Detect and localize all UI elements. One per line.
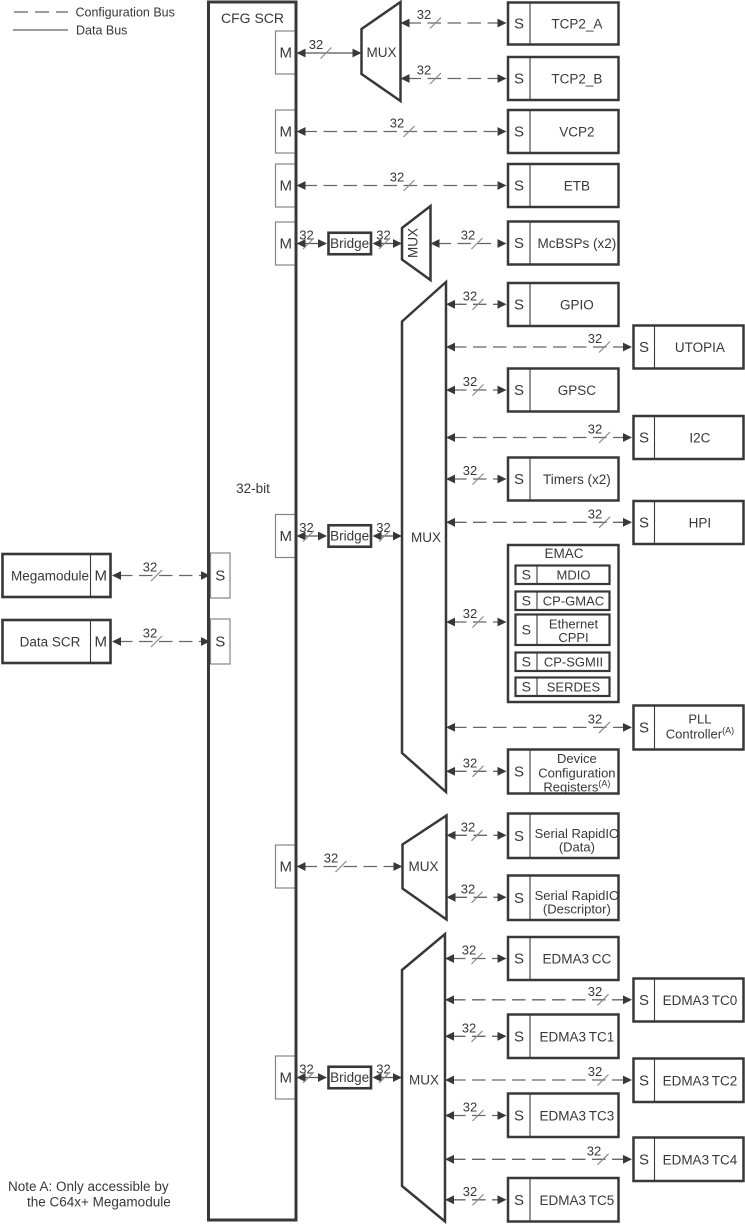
svg-text:32: 32	[462, 943, 476, 958]
GPSC box	[508, 369, 619, 412]
svg-text:S: S	[514, 235, 524, 252]
svg-text:MDIO: MDIO	[557, 567, 591, 582]
svg-text:MUX: MUX	[411, 530, 441, 545]
svg-text:Bridge: Bridge	[330, 1070, 369, 1085]
EDMA3 TC2 box	[634, 1059, 744, 1103]
MUX U1 (TCP2)	[362, 2, 401, 101]
svg-text:S: S	[514, 297, 524, 314]
svg-text:M: M	[279, 1070, 292, 1087]
wire MUX U5 to EDMA3 TC1 (config)	[452, 1035, 500, 1037]
svg-text:Bridge: Bridge	[330, 236, 369, 251]
wire bridge B1 to MUX U2 (data)	[380, 243, 396, 245]
McBSPs box	[508, 222, 619, 265]
wire MUX U4 to Serial RapidIO Descriptor (config)	[454, 896, 500, 898]
EMAC SERDES box	[516, 678, 610, 697]
svg-text:32: 32	[588, 1064, 602, 1079]
wire MUX U5 to EDMA3 TC3 (config)	[452, 1115, 500, 1117]
bridge B3 (EDMA3)	[329, 1067, 372, 1089]
M port to VCP2	[276, 110, 297, 153]
EDMA3 TC5 box	[508, 1178, 619, 1222]
svg-text:S: S	[514, 1107, 524, 1124]
svg-text:32: 32	[417, 7, 431, 22]
EDMA3 TC0 box	[634, 979, 744, 1022]
EDMA3 TC1 box	[508, 1015, 619, 1059]
EDMA3 TC3 box	[508, 1094, 619, 1138]
svg-text:32: 32	[417, 63, 431, 78]
svg-text:32: 32	[463, 1184, 477, 1199]
svg-text:S: S	[639, 1072, 649, 1089]
svg-text:32: 32	[143, 560, 157, 575]
svg-text:MUX: MUX	[409, 859, 439, 874]
svg-text:32: 32	[463, 288, 477, 303]
wire M to bridge B1 (data)	[304, 243, 321, 245]
GPIO box	[508, 283, 619, 326]
svg-text:S: S	[639, 339, 649, 356]
svg-text:32: 32	[309, 37, 323, 52]
svg-text:32: 32	[588, 711, 602, 726]
svg-text:Registers(A): Registers(A)	[543, 779, 610, 795]
svg-text:32: 32	[463, 463, 477, 478]
wire MUX U3 to I2C (config)	[453, 437, 625, 439]
svg-text:EMAC: EMAC	[544, 546, 583, 561]
wire Data SCR to S port (config)	[119, 641, 203, 643]
legend: Configuration Bus dashed line	[14, 11, 68, 13]
wire M to ETB (config)	[304, 185, 500, 187]
svg-text:CPPI: CPPI	[558, 630, 588, 645]
svg-text:32: 32	[390, 116, 404, 131]
svg-text:S: S	[514, 71, 524, 88]
svg-text:S: S	[639, 515, 649, 532]
svg-text:EDMA3 TC0: EDMA3 TC0	[663, 993, 738, 1008]
svg-text:MUX: MUX	[409, 1073, 439, 1088]
svg-text:EDMA3 TC4: EDMA3 TC4	[663, 1152, 738, 1167]
svg-text:S: S	[514, 828, 524, 845]
svg-text:Device: Device	[557, 751, 597, 766]
svg-text:M: M	[279, 45, 292, 62]
wire MUX U5 to EDMA3 TC4 (config)	[452, 1158, 625, 1160]
svg-text:S: S	[639, 992, 649, 1009]
wire bridge B3 to MUX U5 (data)	[380, 1077, 396, 1079]
svg-text:GPSC: GPSC	[558, 383, 597, 398]
wire bridge B2 to MUX U3 (data)	[380, 535, 396, 537]
svg-text:TCP2_A: TCP2_A	[551, 17, 602, 32]
wire MUX U1 to TCP2_B (config)	[408, 78, 500, 80]
M port to EDMA3 bridge	[276, 1056, 297, 1099]
wire M to bridge B3 (data)	[304, 1077, 321, 1079]
svg-text:TCP2_B: TCP2_B	[551, 72, 602, 87]
svg-text:S: S	[514, 1028, 524, 1045]
svg-text:S: S	[522, 621, 531, 637]
svg-text:Controller(A): Controller(A)	[666, 726, 734, 742]
svg-text:EDMA3 TC5: EDMA3 TC5	[540, 1193, 615, 1208]
ETB box	[508, 164, 619, 207]
svg-text:S: S	[514, 1192, 524, 1209]
Data SCR box	[3, 620, 111, 663]
Device Configuration Registers box	[508, 750, 619, 794]
HPI box	[634, 501, 744, 544]
M port to peripheral bridge	[276, 515, 297, 558]
svg-text:MUX: MUX	[406, 228, 421, 258]
svg-text:32: 32	[463, 374, 477, 389]
wire MUX U3 to PLL Controller (config)	[453, 726, 625, 728]
svg-text:CFG SCR: CFG SCR	[221, 10, 284, 26]
TCP2_A box	[508, 3, 619, 45]
svg-text:the C64x+ Megamodule: the C64x+ Megamodule	[27, 1195, 171, 1210]
svg-text:Data SCR: Data SCR	[20, 635, 81, 650]
M port to ETB	[276, 164, 297, 207]
wire MUX U5 to EDMA3 CC (config)	[452, 958, 500, 960]
wire MUX U3 to UTOPIA (config)	[453, 346, 625, 348]
svg-text:32: 32	[463, 755, 477, 770]
M port to Serial RapidIO MUX	[276, 845, 297, 888]
svg-text:(Descriptor): (Descriptor)	[543, 902, 611, 917]
svg-text:UTOPIA: UTOPIA	[675, 340, 725, 355]
svg-text:32: 32	[461, 881, 475, 896]
svg-text:S: S	[522, 678, 531, 694]
wire M to VCP2 (config)	[304, 131, 500, 133]
svg-text:S: S	[522, 592, 531, 608]
svg-text:S: S	[639, 1151, 649, 1168]
EMAC MDIO box	[516, 566, 610, 585]
svg-text:SERDES: SERDES	[547, 679, 601, 694]
svg-text:ETB: ETB	[564, 179, 590, 194]
svg-text:32: 32	[324, 851, 338, 866]
MUX U4 (Serial RapidIO)	[403, 816, 447, 920]
EDMA3 CC box	[508, 937, 619, 980]
wire Megamodule to S port (config)	[119, 575, 203, 577]
svg-text:Data Bus: Data Bus	[76, 24, 127, 38]
M port to McBSP bridge	[276, 222, 297, 265]
legend: Data Bus solid line	[13, 29, 68, 31]
VCP2 box	[508, 110, 619, 153]
svg-text:M: M	[94, 568, 107, 585]
svg-text:32: 32	[588, 331, 602, 346]
svg-text:S: S	[514, 16, 524, 33]
wire MUX U3 to HPI (config)	[453, 521, 625, 523]
wire MUX U1 to TCP2_A (config)	[408, 22, 500, 24]
svg-text:M: M	[279, 178, 292, 195]
PLL Controller box	[634, 706, 744, 750]
svg-text:32: 32	[462, 1020, 476, 1035]
svg-text:I2C: I2C	[689, 431, 710, 446]
svg-text:32: 32	[143, 626, 157, 641]
svg-text:HPI: HPI	[689, 516, 712, 531]
svg-text:32: 32	[588, 984, 602, 999]
svg-text:EDMA3 TC1: EDMA3 TC1	[540, 1029, 615, 1044]
Serial RapidIO Descriptor box	[508, 876, 619, 921]
bridge B1 (McBSP)	[329, 233, 372, 255]
MUX U5 (EDMA3)	[402, 934, 445, 1222]
svg-text:S: S	[514, 178, 524, 195]
svg-text:S: S	[522, 566, 531, 582]
svg-text:Megamodule: Megamodule	[11, 569, 89, 584]
svg-text:PLL: PLL	[688, 712, 711, 727]
CFG SCR switch fabric box	[209, 2, 297, 1220]
Timers box	[508, 458, 619, 501]
EMAC CP-GMAC box	[516, 592, 610, 611]
svg-text:VCP2: VCP2	[559, 125, 594, 140]
svg-text:Timers (x2): Timers (x2)	[543, 472, 611, 487]
svg-text:(Data): (Data)	[559, 840, 595, 855]
svg-text:GPIO: GPIO	[560, 298, 594, 313]
svg-text:32-bit: 32-bit	[236, 481, 270, 496]
svg-text:32: 32	[461, 228, 475, 243]
I2C box	[634, 416, 744, 459]
svg-text:S: S	[522, 653, 531, 669]
svg-text:EDMA3 TC2: EDMA3 TC2	[663, 1073, 738, 1088]
svg-text:32: 32	[463, 1100, 477, 1115]
wire MUX U3 to GPIO (config)	[453, 303, 500, 305]
wire MUX U5 to EDMA3 TC2 (config)	[452, 1079, 625, 1081]
svg-text:M: M	[279, 528, 292, 545]
svg-text:S: S	[514, 124, 524, 141]
EMAC Ethernet CPPI box	[516, 615, 610, 646]
EMAC group box	[508, 545, 619, 702]
EDMA3 TC4 box	[634, 1138, 744, 1182]
svg-text:CP-GMAC: CP-GMAC	[543, 593, 604, 608]
svg-text:Bridge: Bridge	[330, 529, 369, 544]
svg-text:S: S	[639, 430, 649, 447]
svg-text:S: S	[514, 890, 524, 907]
bridge B2 (peripherals)	[329, 525, 372, 547]
wire MUX U2 to McBSPs (config)	[438, 243, 500, 245]
MUX U2 (McBSP)	[402, 206, 431, 280]
svg-text:EDMA3 CC: EDMA3 CC	[543, 952, 612, 967]
svg-text:CP-SGMII: CP-SGMII	[544, 654, 603, 669]
svg-text:S: S	[514, 471, 524, 488]
svg-text:S: S	[639, 720, 649, 737]
UTOPIA box	[634, 326, 744, 369]
svg-text:M: M	[279, 124, 292, 141]
svg-text:S: S	[215, 634, 225, 651]
TCP2_B box	[508, 57, 619, 100]
wire M to MUX U1 (data)	[304, 52, 355, 54]
wire MUX U4 to Serial RapidIO Data (config)	[454, 834, 500, 836]
svg-text:32: 32	[390, 170, 404, 185]
svg-text:Note A: Only accessible by: Note A: Only accessible by	[8, 1179, 169, 1194]
svg-text:32: 32	[463, 606, 477, 621]
wire MUX U3 to Device Configuration Registers (config)	[453, 770, 500, 772]
svg-text:S: S	[215, 568, 225, 585]
EMAC CP-SGMII box	[516, 653, 610, 672]
svg-text:Configuration Bus: Configuration Bus	[76, 6, 175, 20]
svg-text:M: M	[279, 236, 292, 253]
MUX U3 (peripherals)	[402, 282, 446, 792]
svg-text:M: M	[94, 634, 107, 651]
svg-text:S: S	[514, 951, 524, 968]
wire MUX U3 to EMAC (config)	[453, 621, 500, 623]
M port to TCP2 MUX	[276, 31, 297, 74]
svg-text:M: M	[279, 859, 292, 876]
svg-text:32: 32	[587, 1143, 601, 1158]
svg-text:32: 32	[588, 506, 602, 521]
svg-text:S: S	[514, 382, 524, 399]
svg-text:MUX: MUX	[367, 45, 397, 60]
wire M to MUX U4 (config)	[304, 866, 396, 868]
wire M to bridge B2 (data)	[304, 535, 321, 537]
wire MUX U5 to EDMA3 TC0 (config)	[452, 999, 625, 1001]
wire MUX U3 to Timers (config)	[453, 478, 500, 480]
wire MUX U5 to EDMA3 TC5 (config)	[452, 1199, 500, 1201]
Serial RapidIO Data box	[508, 814, 619, 859]
svg-text:32: 32	[461, 819, 475, 834]
svg-text:32: 32	[588, 422, 602, 437]
S port from Data SCR	[211, 619, 231, 664]
svg-text:EDMA3 TC3: EDMA3 TC3	[540, 1108, 615, 1123]
wire MUX U3 to GPSC (config)	[453, 389, 500, 391]
svg-text:McBSPs (x2): McBSPs (x2)	[537, 236, 616, 251]
S port from Megamodule	[211, 553, 231, 598]
Megamodule box	[3, 554, 111, 597]
svg-text:S: S	[514, 764, 524, 781]
